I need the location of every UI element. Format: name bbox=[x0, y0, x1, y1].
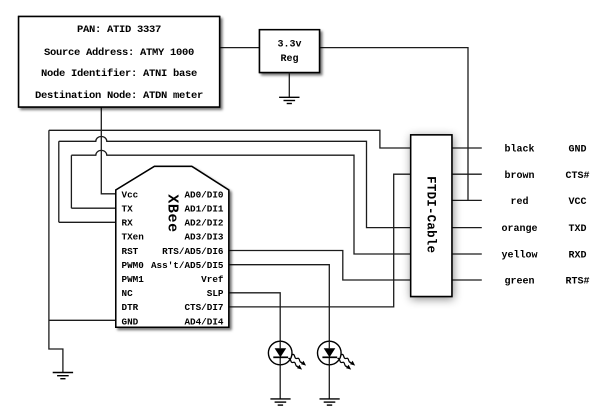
svg-text:Destination Node: ATDN meter: Destination Node: ATDN meter bbox=[35, 90, 203, 102]
svg-text:PWM0: PWM0 bbox=[122, 260, 145, 271]
svg-text:yellow: yellow bbox=[501, 250, 537, 262]
wire: Vcc riser from info box to XBee Vcc pin bbox=[101, 106, 116, 194]
svg-text:RST: RST bbox=[122, 246, 139, 257]
svg-text:GND: GND bbox=[568, 145, 586, 156]
svg-text:VCC: VCC bbox=[568, 197, 586, 208]
svg-text:RTS/AD5/DI6: RTS/AD5/DI6 bbox=[162, 246, 224, 257]
svg-text:3.3v: 3.3v bbox=[277, 40, 301, 51]
LED D1 light arrows bbox=[287, 357, 304, 371]
node labels: FTDI signal names bbox=[565, 145, 589, 288]
node labels: cable wire colors bbox=[501, 144, 537, 288]
wire: GND net left vertical down to ground bbox=[49, 130, 63, 372]
svg-text:XBee: XBee bbox=[164, 194, 181, 232]
svg-text:CTS/DI7: CTS/DI7 bbox=[184, 302, 223, 313]
svg-text:RTS#: RTS# bbox=[565, 277, 589, 288]
svg-text:Ass't/AD5/DI5: Ass't/AD5/DI5 bbox=[151, 260, 224, 271]
svg-text:CTS#: CTS# bbox=[565, 171, 589, 182]
svg-text:AD1/DI1: AD1/DI1 bbox=[184, 203, 223, 214]
wire: regulator to ground bbox=[288, 73, 290, 98]
svg-text:NC: NC bbox=[122, 288, 134, 299]
svg-text:PWM1: PWM1 bbox=[122, 274, 145, 285]
ground bottom-left (main) bbox=[53, 373, 73, 379]
svg-text:AD3/DI3: AD3/DI3 bbox=[184, 232, 223, 243]
wire: CTS net (XBee CTS/DI7 to FTDI CTS#) bbox=[229, 174, 411, 307]
svg-text:RXD: RXD bbox=[568, 251, 586, 262]
svg-text:orange: orange bbox=[501, 224, 537, 235]
svg-text:TX: TX bbox=[122, 203, 134, 214]
svg-text:PAN: ATID 3337: PAN: ATID 3337 bbox=[77, 24, 161, 36]
wire: GND net horizontal to FTDI pin1 bbox=[49, 130, 411, 148]
XBee right pin labels bbox=[151, 189, 224, 327]
wire: regulator output to VCC riser bbox=[320, 48, 469, 201]
svg-text:Reg: Reg bbox=[280, 54, 298, 65]
LED D2 light arrows bbox=[336, 357, 353, 371]
FTDI-Cable connector bbox=[411, 135, 452, 297]
wire: TX net (XBee TX to FTDI RXD) with hop bbox=[71, 150, 410, 254]
svg-text:Vcc: Vcc bbox=[122, 189, 139, 200]
wire: RTS net (XBee RTS/AD5/DI6 to FTDI RTS#) bbox=[229, 251, 411, 281]
svg-text:DTR: DTR bbox=[122, 302, 139, 313]
svg-text:GND: GND bbox=[122, 316, 139, 327]
svg-text:Node Identifier: ATNI base: Node Identifier: ATNI base bbox=[41, 68, 197, 80]
wire: RX net (XBee RX to FTDI TXD) with hop bbox=[59, 137, 411, 228]
info box (PAN/ATID annotation) bbox=[19, 17, 220, 108]
svg-text:RX: RX bbox=[122, 218, 134, 229]
svg-text:red: red bbox=[510, 196, 528, 208]
svg-text:SLP: SLP bbox=[207, 288, 224, 299]
LED D1 bbox=[268, 341, 307, 371]
regulator U1 3.3v bbox=[260, 30, 320, 73]
svg-text:black: black bbox=[504, 144, 534, 156]
wire: SLP pin to LED D1 bbox=[229, 293, 280, 399]
svg-text:brown: brown bbox=[504, 170, 534, 182]
ground under LED D2 bbox=[320, 399, 340, 405]
wire: XBee GND pin tap bbox=[49, 319, 116, 321]
wire: FTDI right pin stubs bbox=[452, 148, 482, 280]
svg-text:TXD: TXD bbox=[568, 224, 586, 235]
IC U1 XBee module body bbox=[116, 166, 229, 327]
svg-text:Vref: Vref bbox=[201, 274, 224, 285]
wire: Ass't/AD5/DI5 pin to LED D2 bbox=[229, 265, 329, 399]
svg-text:TXen: TXen bbox=[122, 232, 145, 243]
ground under regulator bbox=[279, 97, 299, 103]
svg-text:green: green bbox=[504, 277, 534, 288]
svg-text:AD0/DI0: AD0/DI0 bbox=[184, 189, 223, 200]
LED D2 bbox=[318, 341, 357, 371]
svg-text:AD4/DI4: AD4/DI4 bbox=[184, 316, 223, 327]
XBee left pin labels bbox=[122, 189, 145, 327]
ground under LED D1 bbox=[270, 399, 290, 405]
svg-text:FTDI-Cable: FTDI-Cable bbox=[424, 176, 438, 253]
svg-text:Source Address: ATMY 1000: Source Address: ATMY 1000 bbox=[44, 47, 194, 59]
svg-text:AD2/DI2: AD2/DI2 bbox=[184, 218, 223, 229]
wire: info box to regulator input bbox=[219, 47, 260, 49]
